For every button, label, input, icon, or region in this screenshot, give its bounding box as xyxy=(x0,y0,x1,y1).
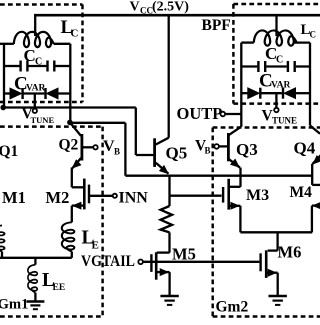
svg-text:VAR: VAR xyxy=(26,84,45,94)
svg-text:Q3: Q3 xyxy=(236,140,258,159)
svg-text:V: V xyxy=(130,0,140,15)
svg-text:EE: EE xyxy=(53,283,66,293)
svg-text:B: B xyxy=(205,146,211,156)
svg-text:M1: M1 xyxy=(2,188,26,207)
svg-text:INN: INN xyxy=(119,190,149,207)
svg-text:TUNE: TUNE xyxy=(272,116,297,126)
svg-text:M3: M3 xyxy=(246,187,269,204)
svg-text:Q4: Q4 xyxy=(294,139,316,158)
svg-text:C: C xyxy=(276,55,283,66)
svg-text:BPF: BPF xyxy=(202,17,231,34)
svg-text:C: C xyxy=(24,46,36,65)
svg-text:E: E xyxy=(92,240,99,252)
svg-text:M4: M4 xyxy=(290,184,313,201)
svg-text:Q2: Q2 xyxy=(59,137,79,154)
svg-text:Q5: Q5 xyxy=(166,144,188,163)
svg-text:M2: M2 xyxy=(46,188,70,207)
svg-text:(2.5V): (2.5V) xyxy=(152,0,189,15)
svg-text:Q1: Q1 xyxy=(0,143,18,160)
svg-text:OUTP: OUTP xyxy=(177,104,223,123)
svg-text:Gm1: Gm1 xyxy=(0,297,29,313)
svg-text:B: B xyxy=(114,147,120,157)
svg-text:C: C xyxy=(71,28,79,40)
svg-text:Gm2: Gm2 xyxy=(216,299,249,316)
svg-text:M5: M5 xyxy=(172,245,196,264)
svg-text:VGTAIL: VGTAIL xyxy=(81,253,135,270)
svg-text:C: C xyxy=(35,57,42,68)
svg-text:VAR: VAR xyxy=(271,81,290,91)
svg-text:C: C xyxy=(310,30,317,40)
svg-text:TUNE: TUNE xyxy=(31,115,55,125)
svg-text:M6: M6 xyxy=(278,243,302,262)
